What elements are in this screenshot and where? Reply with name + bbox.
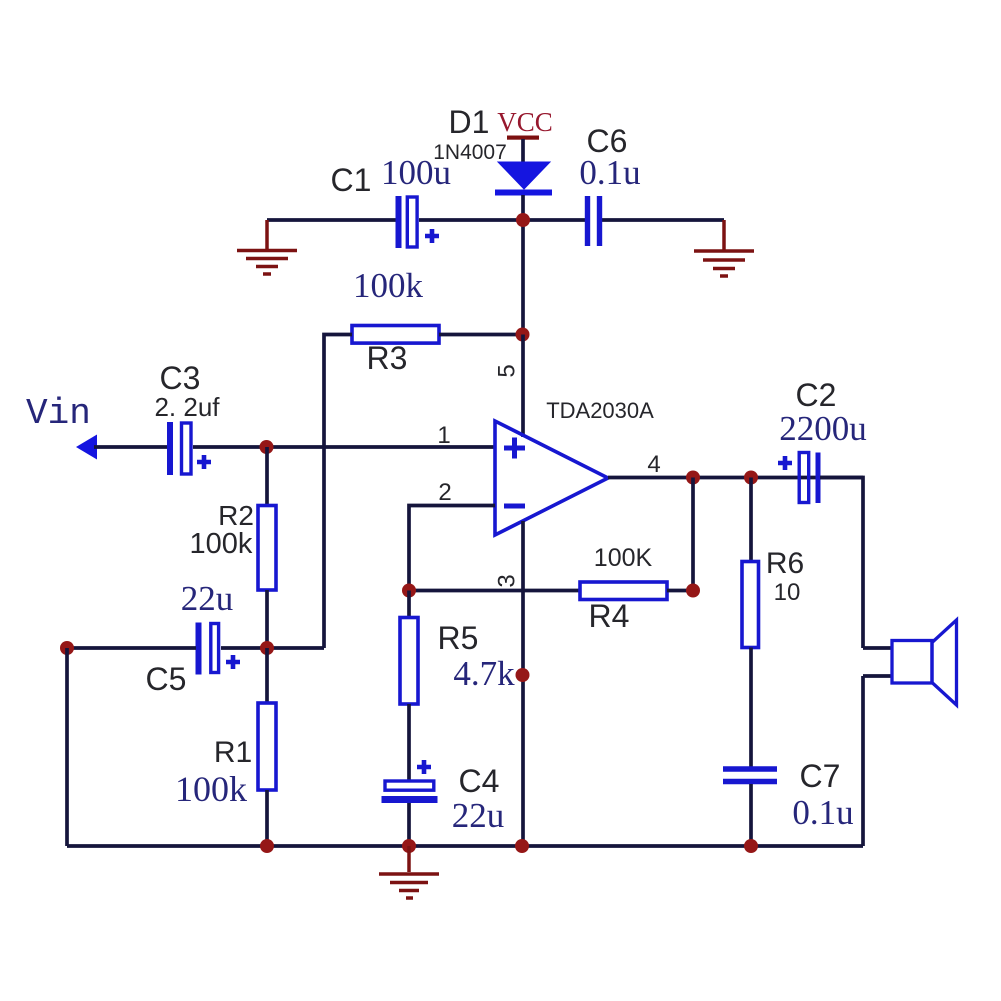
wire R4 right (667, 589, 693, 593)
svg-text:22u: 22u (452, 796, 505, 835)
node at C1/C6/D1 (516, 213, 530, 227)
svg-text:2200u: 2200u (779, 409, 867, 448)
wire R3 right to pin5 column (439, 333, 523, 337)
svg-text:1N4007: 1N4007 (433, 141, 507, 164)
node C4 bottom (402, 839, 416, 853)
node output 1 (686, 471, 700, 485)
svg-text:100k: 100k (175, 769, 247, 809)
wire arrow to C3 (94, 445, 167, 449)
wire diode to rail (521, 195, 525, 220)
capacitor C2 (778, 453, 818, 504)
svg-text:1: 1 (437, 422, 450, 449)
wire R6 to C7 (749, 648, 753, 768)
svg-text:C7: C7 (800, 758, 841, 794)
wire VCC to diode (521, 139, 525, 163)
node C3 / R2 (260, 440, 274, 454)
resistor R3 (352, 326, 439, 344)
wire C3 to op-amp pin1 (193, 445, 495, 449)
wire node to R5 (407, 591, 411, 618)
node R1 bottom (260, 839, 274, 853)
node output 2 (744, 471, 758, 485)
capacitor C4 (382, 760, 438, 800)
svg-text:0.1u: 0.1u (792, 793, 853, 832)
svg-text:TDA2030A: TDA2030A (546, 398, 654, 423)
svg-text:R5: R5 (438, 620, 479, 656)
wire C2 to speaker column (820, 478, 863, 649)
svg-text:C5: C5 (146, 661, 187, 697)
svg-text:100K: 100K (594, 544, 653, 572)
svg-text:C4: C4 (459, 763, 500, 799)
VCC power bar (507, 136, 539, 140)
resistor R4 (580, 582, 667, 600)
wire node to R1 (265, 648, 269, 703)
speaker LS1 (892, 620, 957, 705)
wire R2 to C5 node (265, 590, 269, 648)
wire R5 to C4 (407, 704, 411, 780)
bottom rail wire (67, 844, 863, 848)
op-amp minus input mark (504, 504, 525, 509)
svg-text:D1: D1 (449, 104, 490, 140)
svg-text:2: 2 (438, 479, 451, 506)
svg-text:C1: C1 (331, 162, 372, 198)
wire C7 to bottom rail (749, 784, 753, 846)
resistor R6 (742, 562, 759, 648)
wire output (608, 476, 863, 480)
svg-text:R3: R3 (367, 340, 408, 376)
capacitor C3 (170, 422, 211, 475)
wire top rail middle (419, 218, 585, 222)
svg-text:0.1u: 0.1u (579, 153, 640, 192)
svg-text:3: 3 (494, 574, 521, 587)
wire R1 to bottom rail (265, 790, 269, 846)
svg-text:R2: R2 (218, 500, 254, 531)
node R3 / pin5 (516, 328, 530, 342)
wire left to C5 (67, 646, 196, 650)
svg-text:4: 4 (647, 451, 660, 478)
wire speaker bottom terminal (863, 676, 892, 846)
Vin arrow (76, 435, 97, 460)
svg-text:5: 5 (494, 364, 521, 377)
diode D1 (495, 162, 552, 196)
svg-text:10: 10 (774, 579, 801, 606)
node R4 right (686, 584, 700, 598)
wire speaker top terminal (863, 646, 892, 650)
wire R3 left down to C5 node (324, 335, 352, 649)
node pin2 / R5 (402, 584, 416, 598)
wire pin2 (409, 506, 495, 591)
wire rail to R3 node (521, 220, 525, 335)
wire C5 to node (221, 646, 324, 650)
wire output node down to R4 (691, 478, 695, 591)
op-amp plus input mark (504, 438, 525, 459)
wire output node to R6 (749, 478, 753, 562)
capacitor C1 (399, 196, 440, 248)
node C7 bottom (744, 839, 758, 853)
resistor R5 (400, 618, 418, 705)
wire pin5 into op-amp (521, 335, 525, 438)
wire node down to R2 (265, 447, 269, 506)
node pin3 bottom (515, 839, 529, 853)
wire top rail right (602, 218, 724, 222)
svg-text:4.7k: 4.7k (453, 654, 515, 693)
capacitor C5 (199, 623, 241, 675)
resistor R1 (258, 703, 276, 790)
ground left (237, 220, 297, 274)
svg-text:VCC: VCC (497, 107, 553, 137)
ground bottom (379, 846, 439, 898)
node left end (60, 641, 74, 655)
svg-text:22u: 22u (181, 579, 234, 618)
svg-text:100k: 100k (353, 266, 424, 305)
resistor R2 (258, 506, 276, 591)
wire C4 to bottom rail (407, 803, 411, 846)
node C5 / R2 / R1 (260, 641, 274, 655)
svg-text:Vin: Vin (26, 393, 91, 434)
svg-text:2. 2uf: 2. 2uf (154, 392, 220, 422)
svg-text:R4: R4 (589, 598, 630, 634)
wire left column down (65, 648, 69, 846)
svg-text:R6: R6 (766, 547, 804, 580)
svg-text:C3: C3 (160, 360, 201, 396)
wire pin3 down to bottom rail (521, 521, 525, 846)
op-amp U1 TDA2030A (495, 421, 608, 535)
svg-text:100k: 100k (190, 528, 253, 560)
wire top rail left (267, 218, 396, 222)
ground right (694, 220, 754, 276)
capacitor C6 (588, 196, 600, 246)
wire pin2 node to R4 (409, 589, 580, 593)
node on pin3 line (516, 668, 530, 682)
svg-text:R1: R1 (214, 736, 252, 769)
capacitor C7 (723, 769, 777, 782)
svg-text:C2: C2 (796, 377, 837, 413)
